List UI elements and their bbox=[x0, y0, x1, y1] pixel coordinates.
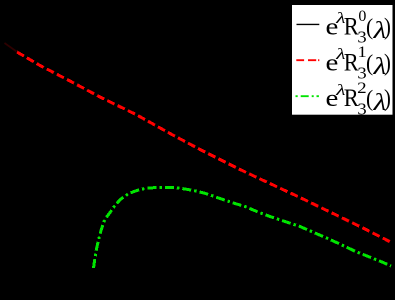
legend sample: black solid line bbox=[297, 23, 320, 25]
svg-text:): ) bbox=[384, 86, 391, 112]
legend text row 2: e^lambda R_3^1(lambda) bbox=[326, 44, 391, 83]
curve R2: green dash-dot e^lambda R_3^2(lambda) bbox=[94, 187, 392, 268]
legend text row 1: e^lambda R_3^0(lambda) bbox=[326, 8, 391, 47]
legend sample: red dashed line bbox=[296, 59, 319, 61]
legend box bbox=[291, 4, 394, 116]
svg-text:): ) bbox=[384, 50, 391, 76]
svg-text:(: ( bbox=[366, 50, 373, 76]
legend sample: green dash-dot line bbox=[296, 95, 320, 97]
svg-text:(: ( bbox=[366, 86, 373, 112]
curve R1 dim start (black line overlapping red) bbox=[5, 43, 17, 52]
legend text row 3: e^lambda R_3^2(lambda) bbox=[326, 80, 391, 119]
curve R1: red dashed e^lambda R_3^1(lambda) bbox=[17, 52, 393, 243]
svg-text:): ) bbox=[384, 14, 391, 40]
svg-text:(: ( bbox=[366, 14, 373, 40]
